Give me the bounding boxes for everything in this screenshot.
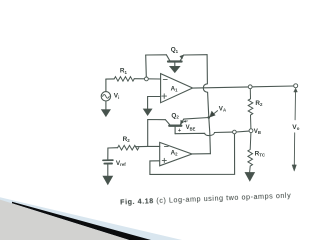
wire: input wire from Vi corner to A1 inverting input xyxy=(106,78,161,80)
wire: A2 inverting input xyxy=(148,145,160,147)
node: VB node circle xyxy=(249,129,253,133)
Vo measure arrow (up head) xyxy=(294,88,298,92)
slide corner decoration xyxy=(0,197,182,240)
op-amp A2 xyxy=(160,142,192,165)
VA pointer arrow xyxy=(213,111,218,115)
wire: Q1 emitter vertical down with crossover jog over A1 output xyxy=(203,55,209,118)
wire: Q1 feedback top-left xyxy=(146,54,167,56)
wire: A2 noninverting feedback loop xyxy=(150,134,235,175)
ground (RTC) xyxy=(245,172,255,181)
svg-text:VBE: VBE xyxy=(186,125,196,131)
node: junction circle to A2 + loop xyxy=(233,130,237,134)
node: R2 top junction circle on output wire xyxy=(248,85,252,89)
node: VA junction dot xyxy=(208,116,211,119)
ground (Vref) xyxy=(103,176,113,185)
wire: A2 output xyxy=(192,153,210,155)
transistor Q1 xyxy=(166,55,183,67)
wire: Vref to ground xyxy=(107,164,109,176)
caption xyxy=(120,191,291,207)
resistor R2 (output divider) xyxy=(248,89,253,129)
op-amp A1 xyxy=(161,74,193,103)
wire: VA junction down to A2 output (crosses VB wire) xyxy=(209,117,211,153)
wire: VB wire from Q2 base with hop under VA vertical xyxy=(175,131,249,135)
wire: R2(lower) to A2 inverting input xyxy=(108,146,148,148)
resistor R1 xyxy=(114,77,134,82)
transistor Q2 xyxy=(165,119,183,133)
ground (Q1 base) xyxy=(170,66,180,72)
wire: Vi to ground xyxy=(105,101,107,110)
ground (A1 + input) xyxy=(143,109,152,116)
wire: Q1 feedback top-right xyxy=(184,54,208,56)
source Vref (battery) xyxy=(107,148,109,159)
wire: Q2 collector loop (left vertical to A2 inverting input) xyxy=(148,120,166,147)
wire: Q2 emitter wire to VA junction xyxy=(184,118,209,120)
wire: Vo measure line lower xyxy=(293,133,295,166)
resistor R2 (Vref input) xyxy=(118,145,139,150)
VBE pointer dash xyxy=(185,120,188,123)
source Vi (sine source) xyxy=(105,79,107,92)
wire: Q1 feedback left vertical xyxy=(145,55,148,77)
wire: A1 noninverting input to ground xyxy=(148,97,161,110)
resistor RTC xyxy=(248,133,253,173)
node: A1 inverting input node circle xyxy=(145,77,149,81)
Vo measure arrow (down head) xyxy=(292,165,296,171)
wire: A1 output to top-right corner xyxy=(193,86,294,88)
ground (below Vi) xyxy=(101,110,110,117)
wire: Vo measure line upper xyxy=(294,92,296,120)
node: top-right corner circle xyxy=(294,84,298,88)
